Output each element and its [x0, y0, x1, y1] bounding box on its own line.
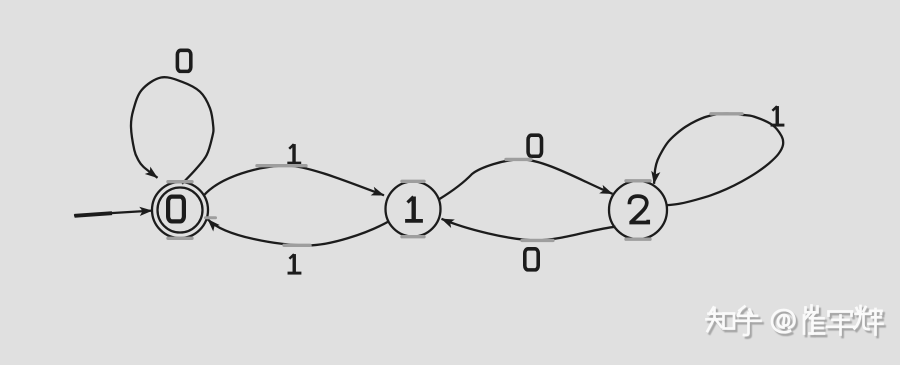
start arrow into state 0: [74, 211, 152, 216]
watermark shadow: [709, 308, 885, 338]
label 0 of edge 2 to 1: [525, 249, 538, 270]
dash apex edge 1-0 bottom: [284, 244, 310, 247]
dash top of circle 2: [626, 179, 650, 182]
edge 1 to 0: [208, 219, 389, 245]
self loop on state 2: [654, 114, 783, 206]
label 0 of self loop: [177, 50, 190, 71]
label 1 of edge 1 to 0: [288, 254, 302, 273]
dash top of loop 2: [711, 112, 742, 115]
state 2 label: [629, 196, 648, 222]
label 1 of self loop on 2: [771, 106, 785, 125]
self loop on state 0: [131, 77, 214, 184]
state 2 circle: [609, 181, 667, 239]
state 1 circle: [386, 182, 441, 237]
watermark white text: [707, 306, 883, 336]
gray artifact dashes: [168, 114, 742, 246]
state 0 outer circle: [152, 182, 208, 238]
dash smudge at arrowhead into state 0: [206, 216, 216, 219]
state 0 label: [168, 197, 184, 222]
start arrow thick left segment: [75, 213, 113, 216]
dash apex edge 2-1 bottom: [522, 239, 553, 242]
edge 1 to 2: [440, 159, 613, 199]
dash top of circle 1: [402, 180, 424, 183]
edge 2 to 1: [442, 219, 616, 241]
state 1 label: [405, 197, 423, 221]
dash apex edge 1-2 top: [506, 158, 531, 161]
dash bottom of circle 0: [168, 237, 192, 240]
dash bottom of circle 2: [626, 237, 650, 240]
label 0 of edge 1 to 2: [528, 135, 541, 156]
dash bottom of circle 1: [402, 235, 424, 238]
dash top of circle 0: [168, 180, 192, 183]
label 1 of edge 0 to 1: [287, 144, 301, 163]
dash apex edge 0-1 top: [257, 164, 306, 167]
edge 0 to 1: [204, 166, 385, 196]
state 0 inner circle: [158, 188, 203, 233]
